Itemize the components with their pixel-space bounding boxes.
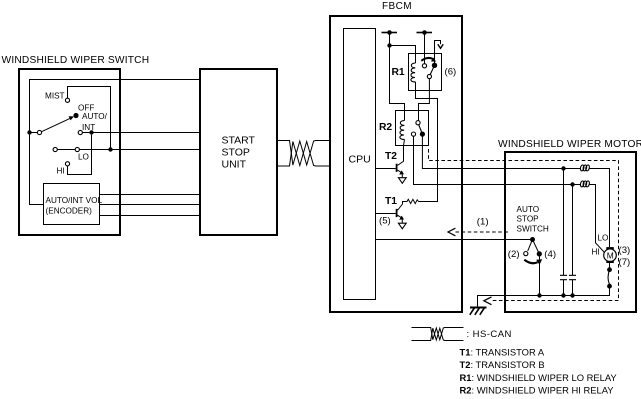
auto stop switch blade (closed side) <box>533 240 540 254</box>
svg-text:(1): (1) <box>477 217 489 228</box>
motor M <box>604 249 617 262</box>
svg-text:AUTO: AUTO <box>517 205 540 214</box>
svg-text:AUTO/: AUTO/ <box>82 112 108 121</box>
dashed link path (relay to motor ground reference) <box>429 149 619 301</box>
windshield wiper switch box <box>19 69 120 235</box>
contact R1 fixed (NO) <box>422 64 426 68</box>
svg-text:MIST: MIST <box>45 92 65 101</box>
motor brush cap top <box>606 247 614 249</box>
svg-text:R2: R2 <box>379 122 392 133</box>
node: junction dot capacitor 1 <box>561 166 565 170</box>
svg-text:UNIT: UNIT <box>222 159 247 171</box>
svg-text:(4): (4) <box>544 249 556 260</box>
svg-text:(2): (2) <box>508 249 520 260</box>
wire: LO output to START STOP UNIT <box>79 149 199 151</box>
relay R2 box <box>396 111 429 146</box>
svg-text:R2: WINDSHIELD WIPER HI RELAY: R2: WINDSHIELD WIPER HI RELAY <box>460 385 615 396</box>
switch arm LO row <box>57 149 75 151</box>
off-page arrow (6) head <box>438 44 443 48</box>
svg-text:T2: T2 <box>385 151 397 162</box>
svg-text:CPU: CPU <box>349 154 371 166</box>
wire: HI to INT output wire <box>68 135 92 175</box>
wire: R1 common down to R2 fixed contact <box>419 79 430 121</box>
svg-text:FBCM: FBCM <box>382 1 412 12</box>
wire: R2 coil bottom to T2 collector <box>398 139 405 165</box>
svg-text:STOP: STOP <box>222 147 250 159</box>
node: contact (4) dot <box>537 251 542 256</box>
svg-text:LO: LO <box>78 152 89 161</box>
FBCM box <box>330 16 462 312</box>
contact AUTO/INT <box>78 130 82 134</box>
node: R1 moving contact dot <box>432 63 437 68</box>
wire: motor return to ground bus <box>478 286 610 307</box>
motor brush cap bottom <box>606 261 614 263</box>
ground-side open arrow <box>484 297 492 305</box>
node: power dot 1 <box>387 30 392 35</box>
svg-text:SWITCH: SWITCH <box>517 225 549 234</box>
svg-text:T2: TRANSISTOR B: T2: TRANSISTOR B <box>460 359 545 370</box>
switch arm (to OFF) <box>42 118 71 132</box>
contact R2 fixed (pivot) <box>416 121 420 125</box>
capacitor C2 plates <box>569 275 576 279</box>
choke coil HI <box>580 181 590 188</box>
wire: inner feed (left/top of switch to START STOP UNIT) <box>30 80 200 205</box>
relay R1 box <box>409 54 442 91</box>
choke coil LO <box>580 165 590 172</box>
contact R1 common <box>427 74 431 78</box>
node: junction dot INT/HI <box>89 130 93 134</box>
wire: power to R1 fixed contact <box>424 33 426 64</box>
ground arrow T2 <box>398 178 406 184</box>
breaker blade <box>608 270 609 285</box>
wire: MIST to LO output wire <box>68 87 111 150</box>
wire: branch to R1 coil <box>390 46 416 64</box>
relay R1 arm <box>430 65 434 74</box>
svg-text:M: M <box>607 251 614 261</box>
svg-text:STOP: STOP <box>517 215 540 224</box>
svg-text:HI: HI <box>592 247 600 256</box>
relay R1 coil <box>411 63 416 82</box>
wire: HS-CAN line A <box>278 141 331 166</box>
auto stop actuation arrow <box>524 260 537 263</box>
node: OFF contact dot <box>73 113 78 118</box>
node: junction dot on left feed wire <box>27 130 31 134</box>
svg-text:WINDSHIELD WIPER MOTOR: WINDSHIELD WIPER MOTOR <box>498 139 641 150</box>
svg-text:T1: T1 <box>385 196 397 207</box>
dashed wire (1) <box>456 231 511 233</box>
wire: R1 NC to off-page arrow <box>435 41 441 66</box>
power bar 1 <box>382 32 398 34</box>
svg-text:AUTO/INT VOL: AUTO/INT VOL <box>46 196 103 205</box>
contact LO <box>75 147 79 151</box>
svg-text:(6): (6) <box>445 67 457 78</box>
svg-text:T1: TRANSISTOR A: T1: TRANSISTOR A <box>460 347 545 358</box>
wire: CPU to auto stop switch <box>376 239 533 241</box>
svg-text:START: START <box>222 135 256 147</box>
node: auto stop switch common dot <box>530 237 535 242</box>
arrow (1) head <box>448 228 455 236</box>
capacitor C2 leads <box>572 185 574 296</box>
svg-text:WINDSHIELD WIPER SWITCH: WINDSHIELD WIPER SWITCH <box>2 55 150 66</box>
T1 emitter <box>398 215 402 217</box>
wire: R1 coil bottom to T1 collector resistor <box>416 82 438 202</box>
svg-text:LO: LO <box>598 233 609 242</box>
wire: INT output to START STOP UNIT <box>82 132 199 134</box>
node: R2 moving contact dot <box>420 132 425 137</box>
T1 base wire <box>376 213 396 215</box>
wire: contact 4 to ground bus <box>539 257 541 296</box>
node: junction dot capacitor 2 <box>570 182 574 186</box>
relay R2 coil <box>400 121 405 140</box>
ground symbol <box>470 308 487 315</box>
windshield wiper motor box <box>505 152 636 312</box>
node: power dot 2 <box>422 30 427 35</box>
T2 emitter lead <box>401 173 403 177</box>
svg-text:R1: WINDSHIELD WIPER LO RELAY: R1: WINDSHIELD WIPER LO RELAY <box>460 372 618 383</box>
svg-text:(3): (3) <box>619 245 631 256</box>
wire: HI feed (R2 NO to motor HI) <box>414 136 581 184</box>
legend HS-CAN symbol line A <box>412 328 464 340</box>
wire: encoder output 2 <box>100 204 200 206</box>
contact HI <box>65 162 69 166</box>
wire: HS-CAN line B <box>278 142 331 167</box>
svg-text:(ENCODER): (ENCODER) <box>46 207 93 216</box>
capacitor C1 plates <box>560 275 567 279</box>
T2 base bar <box>396 164 398 172</box>
svg-text:INT: INT <box>82 123 95 132</box>
contact LO pivot <box>53 147 57 151</box>
svg-text:(7): (7) <box>619 257 631 268</box>
svg-text:: HS-CAN: : HS-CAN <box>467 329 512 340</box>
encoder box AUTO/INT VOL <box>44 184 100 225</box>
T1 collector + resistor <box>398 199 419 210</box>
switch pivot contact <box>37 130 41 134</box>
wire: choke LO to motor top <box>589 169 609 248</box>
node: junction dot R1 coil feed <box>387 43 391 47</box>
node: breaker dot bottom <box>607 284 612 289</box>
auto stop switch blade (open side) <box>528 240 533 251</box>
T2 emitter <box>398 170 402 172</box>
power bar 2 <box>417 32 433 34</box>
relay R1 actuation arrow <box>421 58 433 61</box>
relay R2 arm <box>419 125 423 134</box>
node: junction dot ground bus 1 <box>537 293 541 297</box>
T1 base bar <box>396 209 398 217</box>
svg-text:HI: HI <box>57 167 65 176</box>
node: junction dot ground bus 3 <box>570 293 574 297</box>
legend HS-CAN symbol line B <box>412 328 464 340</box>
wire: LO feed (R2 common to motor LO) <box>422 137 580 169</box>
contact (2) <box>524 252 528 256</box>
wire: power feed down to R2 coil <box>390 33 405 121</box>
contact MIST <box>65 98 69 102</box>
ground arrow T1 <box>398 223 406 229</box>
T2 base wire <box>376 168 396 170</box>
start stop unit box <box>200 69 277 235</box>
node: junction dot ground bus 2 <box>561 293 565 297</box>
wire: choke HI to motor brush <box>589 185 604 253</box>
CPU box <box>344 29 376 300</box>
wire: encoder output 3 <box>100 215 200 217</box>
capacitor C1 leads <box>563 169 565 296</box>
T1 emitter lead <box>401 219 403 223</box>
node: junction dot LO/MIST <box>108 147 112 151</box>
wire: pivot stub <box>30 132 38 134</box>
wire: motor to breaker <box>609 263 611 268</box>
svg-text:(5): (5) <box>379 216 391 227</box>
svg-text:R1: R1 <box>392 67 405 78</box>
node: breaker dot top <box>607 267 612 272</box>
wire: encoder output 1 <box>100 194 200 196</box>
contact R2 NO <box>411 132 415 136</box>
